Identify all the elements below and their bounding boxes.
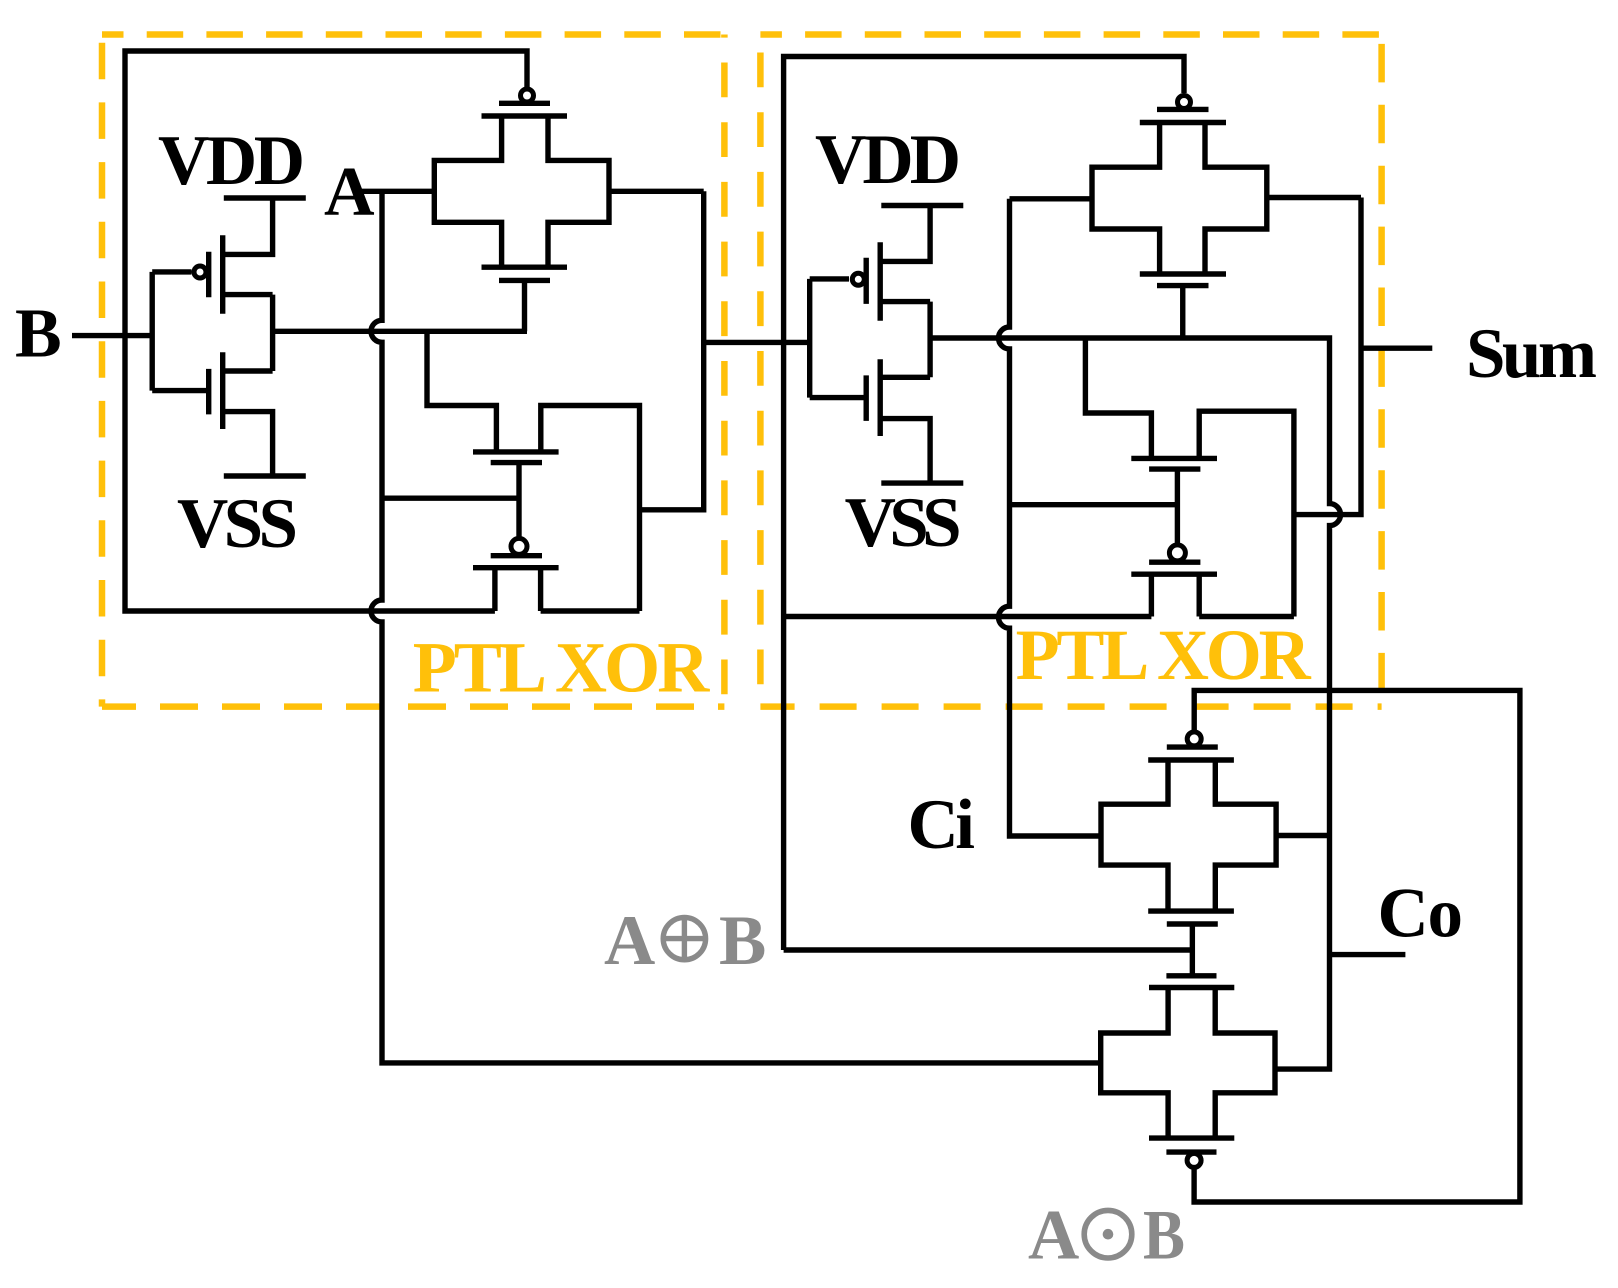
svg-text:VDD: VDD <box>158 122 305 200</box>
svg-text:VDD: VDD <box>815 121 961 199</box>
svg-text:A: A <box>324 154 375 231</box>
svg-text:A: A <box>1028 1197 1079 1275</box>
svg-text:VSS: VSS <box>845 484 962 562</box>
svg-text:Sum: Sum <box>1466 315 1597 393</box>
svg-text:VSS: VSS <box>177 485 298 563</box>
svg-text:Ci: Ci <box>908 786 976 864</box>
svg-text:PTL XOR: PTL XOR <box>413 627 711 707</box>
svg-text:B: B <box>15 296 62 373</box>
svg-text:B: B <box>1143 1197 1185 1275</box>
svg-text:B: B <box>719 902 766 980</box>
svg-text:PTL XOR: PTL XOR <box>1016 615 1312 695</box>
svg-text:A: A <box>604 902 655 980</box>
svg-text:Co: Co <box>1378 875 1464 953</box>
